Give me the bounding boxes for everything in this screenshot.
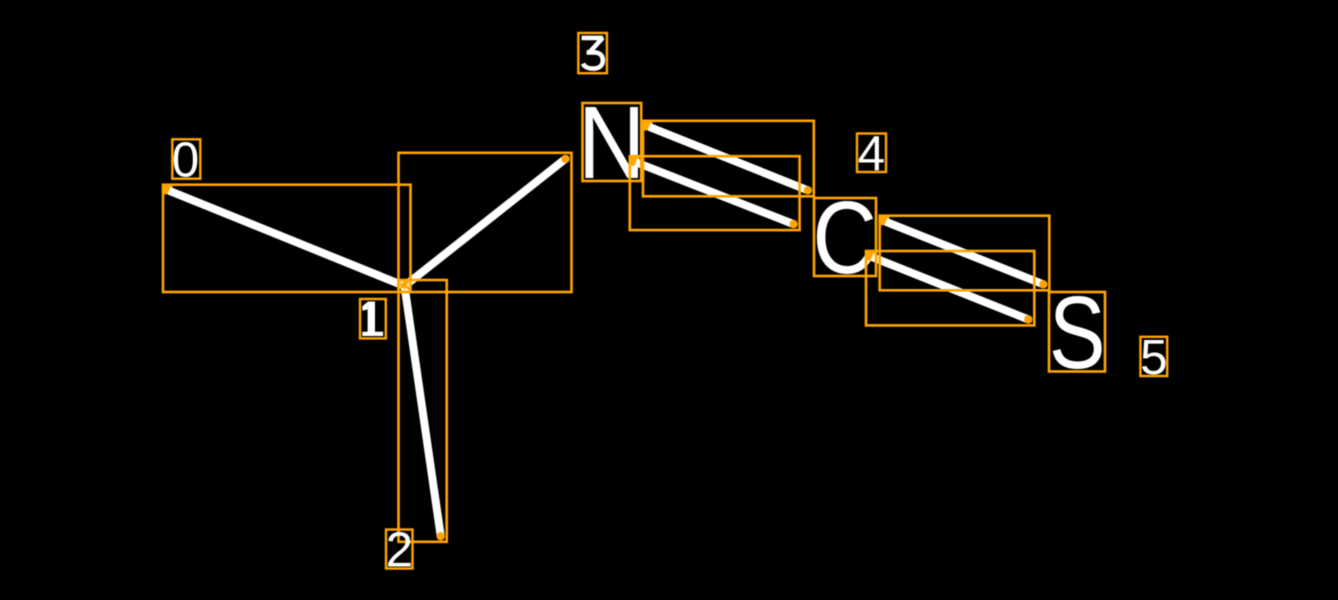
atom S bounding box [1049, 292, 1105, 372]
bond 2 end dot (atom 2) [437, 532, 445, 540]
bond 2 bounding box [399, 280, 447, 542]
atom C bounding box [814, 198, 876, 276]
bond 4 upper line start marker square (at C) [880, 216, 890, 226]
index label 5 digit [1140, 330, 1167, 385]
index label 0 box [172, 139, 200, 178]
bond 3 lower line start marker square (at N) [630, 156, 640, 166]
bond 3 upper line start marker square (at N) [643, 121, 653, 131]
bond 1 end dot (at N) [561, 155, 569, 163]
bond 4 upper line (C=S double bond) [886, 222, 1044, 285]
bond 4 lower line start marker square (at C) [866, 251, 876, 261]
index label 5 box [1140, 337, 1167, 376]
index label 4 digit [858, 126, 885, 181]
bond 3 upper line (N=C double bond) [649, 127, 808, 191]
index label 1 digit (footed one) [362, 302, 383, 337]
atom S (index 5) label text [1049, 276, 1106, 391]
bond 1 line (atom1-N) [405, 159, 566, 286]
svg-text:S: S [1049, 276, 1106, 391]
svg-text:2: 2 [386, 523, 413, 578]
bond 3 lower line bounding box [630, 156, 800, 230]
bond 4 upper line bounding box [880, 216, 1050, 291]
bond 1 bounding box [399, 153, 572, 292]
bond 0 start marker square (atom 0) [163, 185, 173, 195]
atom C (index 4) label text [812, 181, 877, 295]
atom N (index 3) label text [578, 85, 646, 200]
index label 4 box [857, 134, 886, 173]
bond 3 upper line bounding box [643, 121, 814, 197]
atom 1 junction marker (orange square with dashed white edge) [400, 281, 408, 290]
index label 2 digit [386, 523, 413, 578]
bond 3 lower line (N=C double bond) [636, 162, 794, 224]
bond 2 line (atom1-atom2) [405, 286, 441, 536]
bond 4 lower line end dot [1024, 315, 1032, 323]
bond 0 line (atom0-atom1) [169, 191, 405, 286]
bond 4 lower line (C=S double bond) [872, 257, 1028, 319]
bond 4 upper line end dot [1039, 280, 1047, 288]
bond 4 lower line bounding box [866, 251, 1034, 325]
svg-text:4: 4 [858, 126, 885, 181]
bond 0 bounding box [163, 185, 411, 292]
svg-text:0: 0 [172, 133, 199, 188]
index label 2 box [386, 530, 413, 569]
index label 3 box [578, 33, 607, 73]
svg-text:5: 5 [1140, 330, 1167, 385]
index label 1 box [360, 299, 386, 338]
bond 3 lower line end dot [789, 220, 797, 228]
index label 3 digit (flat-top three) [582, 38, 603, 69]
bond 3 upper line end dot [804, 186, 812, 194]
index label 0 digit [172, 133, 199, 188]
atom N bounding box [583, 103, 642, 181]
